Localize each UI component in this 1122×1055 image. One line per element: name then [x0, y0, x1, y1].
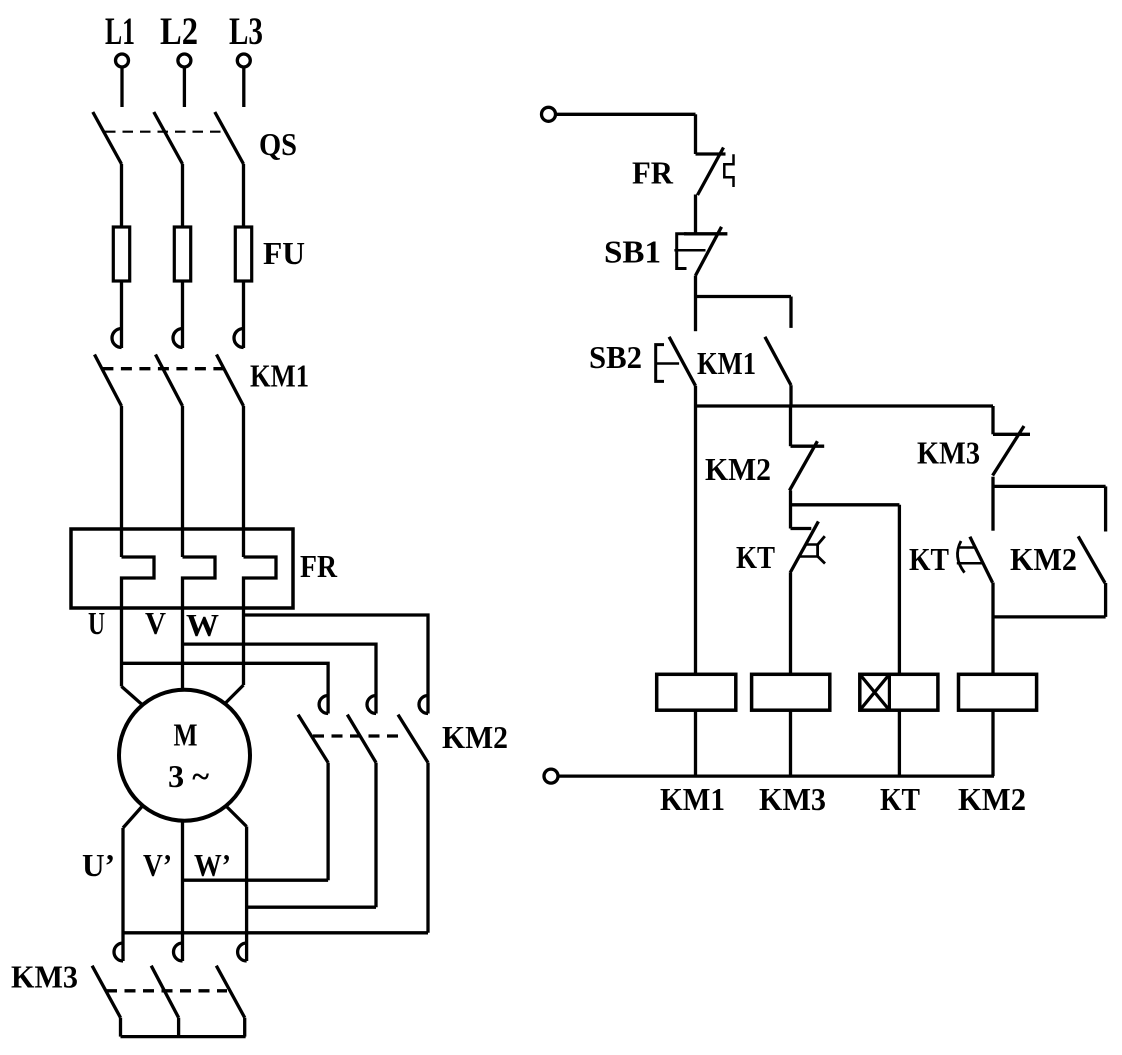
KT NO delay mark arc	[957, 541, 964, 573]
wire W' to KM2 contact 2	[247, 906, 376, 909]
wire coil KM2 to rail	[991, 710, 994, 776]
wire KM3 star bar	[121, 1035, 246, 1038]
pushbutton SB2 blade	[669, 337, 695, 386]
wire U' to KM2 contact 3	[123, 931, 428, 934]
svg-text:W’: W’	[194, 847, 231, 883]
KM2 gang dashed link	[313, 734, 399, 737]
coil KM1	[657, 674, 736, 710]
KM2 contact 2 blade	[347, 715, 376, 763]
wire KM2 contact 2 drop	[374, 763, 377, 908]
wire L1 drop	[120, 68, 123, 108]
svg-text:KT: KT	[909, 541, 949, 577]
wire U to KM2 contact 1	[122, 663, 329, 713]
fuse FU 2	[174, 227, 190, 281]
KM2 contact 3 blade	[398, 715, 428, 763]
svg-text:KM1: KM1	[250, 358, 309, 394]
KM2 aux contact blade	[1078, 536, 1105, 583]
svg-text:KM3: KM3	[759, 781, 826, 817]
wire L3 drop	[242, 68, 245, 108]
FR NC contact blade	[698, 148, 724, 196]
svg-text:KM1: KM1	[697, 345, 756, 381]
wire KM1 aux to bus	[789, 385, 792, 406]
wire L2 drop	[183, 68, 186, 108]
svg-text:KT: KT	[880, 781, 920, 817]
KM3 gang dashed link	[106, 989, 227, 992]
QS gang dashed link	[105, 131, 225, 133]
wire branch 2 top	[789, 406, 792, 446]
FR heater element 3	[244, 557, 277, 608]
terminal L1	[116, 54, 129, 67]
KT NO delayed contact blade	[970, 537, 993, 583]
svg-text:L1: L1	[105, 10, 135, 53]
SB1 actuator rod	[674, 249, 705, 252]
motor lead W' diagonal	[227, 807, 247, 827]
svg-text:SB1: SB1	[604, 234, 661, 270]
wire latch branch drop	[789, 297, 792, 328]
svg-text:L2: L2	[160, 10, 198, 53]
wire V phase below FR	[181, 608, 184, 690]
thermal relay FR box	[71, 529, 293, 608]
svg-text:KT: KT	[736, 539, 775, 575]
switch QS pole 2 blade	[154, 112, 183, 164]
svg-text:W: W	[186, 607, 219, 643]
wire U' drop	[121, 828, 124, 961]
svg-text:FR: FR	[300, 548, 338, 584]
FR thermal actuator bracket	[724, 154, 733, 187]
wire KM2 contact 1 drop	[326, 763, 329, 881]
KM3 NC contact bar	[993, 433, 1030, 436]
svg-text:V’: V’	[143, 847, 172, 883]
svg-text:KM2: KM2	[958, 781, 1026, 817]
wire KM1 to FR pole 3	[242, 406, 245, 557]
wire U phase below FR	[120, 608, 123, 686]
contactor KM2 contact 3 fixed hook	[419, 696, 428, 714]
svg-text:KM3: KM3	[917, 435, 980, 471]
wire coil KM1 to rail	[694, 710, 697, 776]
svg-text:KM3: KM3	[11, 959, 78, 995]
wire junction bus	[696, 404, 994, 407]
KM1 main contact 1 blade	[95, 355, 122, 407]
KM1 main contact 3 blade	[217, 355, 244, 407]
SB1 button bracket	[677, 234, 687, 269]
wire latch branch horizontal	[696, 295, 792, 298]
coil KT	[860, 674, 938, 710]
svg-text:U: U	[88, 605, 105, 641]
switch QS pole 1 blade	[93, 112, 122, 164]
SB2 button bracket	[656, 345, 664, 382]
wire KT NO to bottom junction	[991, 583, 994, 675]
KM2 NC contact bar	[791, 445, 825, 448]
svg-text:SB2: SB2	[589, 339, 642, 375]
svg-text:FR: FR	[632, 155, 674, 191]
FR heater element 2	[183, 557, 216, 608]
KT NC delay mark chords	[800, 545, 818, 557]
wire W phase below FR	[242, 608, 245, 685]
wire KM3 blade 2 stub	[177, 1018, 180, 1037]
motor M circle	[119, 690, 250, 821]
wire coil KM3 to rail	[789, 710, 792, 776]
KM1 aux contact blade	[765, 337, 791, 385]
wire SB2 to bus	[694, 386, 697, 406]
KM1 main contact 2 blade	[156, 355, 183, 407]
KM3 NC contact blade	[993, 426, 1024, 476]
svg-text:3 ~: 3 ~	[168, 758, 209, 794]
wire KT NC to coil KM3	[789, 573, 792, 674]
control terminal bottom	[544, 769, 558, 783]
wire KM3 blade 1 stub	[119, 1018, 122, 1037]
contactor KM2 contact 2 fixed hook	[367, 696, 376, 714]
contactor KM2 contact 1 fixed hook	[319, 696, 328, 714]
wire FR to SB1	[694, 195, 697, 234]
wire parallel top horizontal	[993, 485, 1106, 488]
svg-text:U’: U’	[82, 847, 115, 883]
wire top rail	[556, 113, 696, 116]
KT NC delayed contact bar	[791, 527, 812, 530]
wire W' drop	[245, 827, 248, 962]
switch QS pole 3 blade	[215, 112, 244, 164]
wire V' to KM2 contact 1	[183, 879, 329, 882]
svg-text:QS: QS	[259, 126, 297, 162]
wire KT coil drop	[898, 505, 901, 675]
SB1 blade	[696, 227, 722, 276]
contactor KM1 main contact 2 fixed hook	[173, 329, 183, 348]
wire SB1 to SB2	[694, 276, 697, 332]
wire KM1 to FR pole 1	[120, 406, 123, 557]
terminal L3	[237, 54, 250, 67]
svg-text:M: M	[174, 717, 198, 753]
KM1 gang dashed link	[102, 367, 223, 370]
motor lead U' diagonal	[123, 807, 142, 828]
wire top rail drop	[694, 114, 697, 154]
wire KM2 NC to KT NC	[789, 491, 792, 529]
wire KM2 aux to bottom junction	[1104, 583, 1107, 617]
wire QS to FU pole 3	[242, 164, 245, 348]
SB2 actuator rod	[656, 362, 679, 365]
control terminal top	[542, 107, 556, 121]
motor lead W diagonal	[226, 685, 244, 703]
wire V to KM2 contact 2	[183, 644, 377, 713]
wire KM1 to FR pole 2	[181, 406, 184, 557]
fuse FU 3	[235, 227, 251, 281]
KM3 contact 1 blade	[92, 966, 120, 1018]
wire parallel bottom horizontal	[993, 615, 1106, 618]
wire V' drop	[181, 821, 184, 961]
contactor KM3 contact 3 fixed hook	[238, 943, 247, 961]
wire KM3 NC to parallel	[991, 477, 994, 531]
contactor KM1 main contact 1 fixed hook	[112, 329, 122, 348]
coil KM2	[959, 674, 1037, 710]
wire QS to FU pole 2	[181, 164, 184, 348]
svg-text:L3: L3	[229, 10, 263, 53]
coil KT X mark	[860, 674, 890, 710]
KT NC delayed contact blade	[790, 521, 818, 573]
motor lead U diagonal	[122, 686, 143, 704]
KM2 NC contact blade	[790, 441, 818, 490]
wire branch to KT coil horizontal	[791, 503, 900, 506]
svg-text:KM1: KM1	[660, 781, 725, 817]
wire coil KT to rail	[898, 710, 901, 776]
KT NO delay mark chords	[957, 548, 982, 564]
pushbutton SB1 contact bar	[684, 232, 727, 235]
contactor KM3 contact 1 fixed hook	[114, 943, 123, 961]
contactor KM1 main contact 3 fixed hook	[234, 329, 244, 348]
wire KM2 aux branch drop	[1104, 486, 1107, 531]
KM3 contact 3 blade	[216, 966, 244, 1018]
coil KM3	[752, 674, 830, 710]
contactor KM3 contact 2 fixed hook	[174, 943, 183, 961]
FR heater element 1	[122, 557, 155, 608]
svg-text:V: V	[145, 605, 166, 641]
svg-text:FU: FU	[263, 235, 305, 271]
wire KM3 blade 3 stub	[243, 1018, 246, 1037]
svg-text:KM2: KM2	[705, 451, 771, 487]
svg-text:KM2: KM2	[1010, 541, 1077, 577]
wire QS to FU pole 1	[120, 164, 123, 348]
fuse FU 1	[113, 227, 129, 281]
terminal L2	[178, 54, 191, 67]
wire bottom rail	[558, 774, 994, 777]
wire KM2 contact 3 drop	[426, 763, 429, 933]
KM3 contact 2 blade	[151, 966, 178, 1018]
KT NC delay mark arc	[818, 536, 825, 563]
KM2 contact 1 blade	[298, 715, 328, 763]
FR NC contact bar	[696, 152, 726, 155]
wire branch 3 top	[991, 406, 994, 434]
svg-text:KM2: KM2	[442, 719, 508, 755]
wire W to KM2 contact 3	[244, 615, 429, 714]
wire branch 1 to coil KM1	[694, 406, 697, 674]
